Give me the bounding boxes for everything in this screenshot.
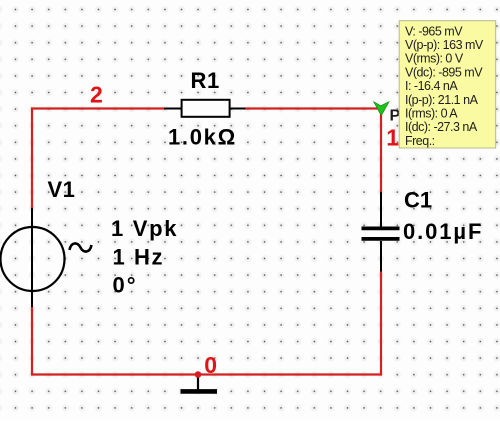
wire net 2: top horizontal right segment	[246, 107, 383, 109]
wire net 2: top horizontal left segment	[31, 107, 164, 109]
ground	[181, 375, 218, 391]
svg-text:I(p-p): 21.1 nA: I(p-p): 21.1 nA	[405, 93, 479, 107]
svg-text:V: -965 mV: V: -965 mV	[405, 24, 463, 38]
probe arrow	[374, 102, 389, 116]
svg-text:I(rms): 0 A: I(rms): 0 A	[405, 107, 458, 121]
svg-text:0°: 0°	[113, 272, 138, 297]
wire net 0: bottom horizontal	[31, 373, 382, 375]
svg-text:V1: V1	[48, 177, 76, 202]
svg-text:1 Hz: 1 Hz	[113, 245, 165, 270]
svg-text:I(dc): -27.3 nA: I(dc): -27.3 nA	[405, 120, 478, 134]
svg-text:C1: C1	[404, 188, 432, 213]
probe tooltip box	[399, 21, 496, 148]
tooltip readings	[405, 24, 484, 148]
svg-text:1 Vpk: 1 Vpk	[111, 216, 178, 241]
resistor R1	[164, 100, 246, 117]
wire: left vertical lower segment (net 0)	[31, 307, 33, 376]
svg-text:2: 2	[90, 82, 103, 108]
svg-text:V(rms): 0 V: V(rms): 0 V	[405, 52, 464, 66]
svg-text:I: -16.4 nA: I: -16.4 nA	[405, 79, 458, 93]
junction dot node 0	[195, 371, 202, 378]
wire net 1: right vertical upper segment	[380, 108, 382, 193]
svg-text:Freq.:: Freq.:	[405, 134, 435, 148]
AC source V1	[1, 208, 92, 307]
svg-text:R1: R1	[191, 68, 220, 93]
svg-text:V(dc): -895 mV: V(dc): -895 mV	[405, 65, 483, 79]
svg-text:1: 1	[386, 125, 399, 151]
svg-text:0.01µF: 0.01µF	[403, 219, 483, 244]
svg-text:0: 0	[204, 352, 217, 378]
capacitor C1	[362, 192, 400, 272]
svg-text:1.0kΩ: 1.0kΩ	[168, 124, 237, 149]
wire: left vertical upper segment (net 2)	[31, 108, 33, 209]
svg-text:V(p-p): 163 mV: V(p-p): 163 mV	[405, 38, 484, 52]
wire net 1: right vertical lower segment	[380, 272, 382, 376]
